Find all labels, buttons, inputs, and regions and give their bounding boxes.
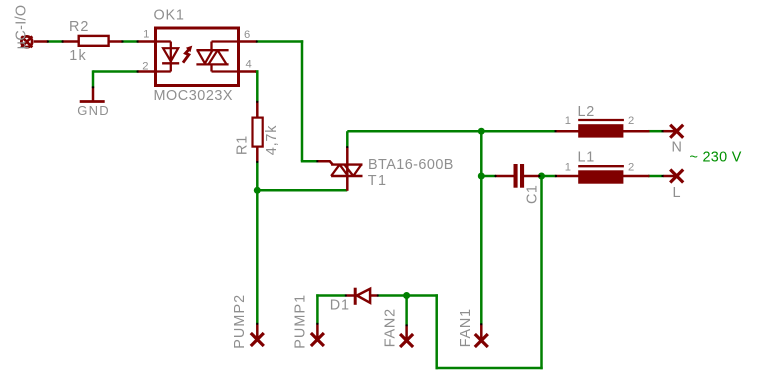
svg-text:2: 2	[628, 161, 634, 173]
OK1 internal triac	[196, 42, 237, 72]
pad uC-I/O	[21, 36, 48, 47]
label L1	[578, 150, 596, 166]
svg-text:6: 6	[244, 29, 250, 41]
svg-text:N: N	[672, 139, 682, 155]
pin number 1 of L2	[565, 115, 571, 127]
label T1	[368, 173, 388, 189]
svg-text:R1: R1	[235, 135, 251, 155]
label R1	[235, 135, 251, 155]
svg-text:MOC3023X: MOC3023X	[154, 88, 234, 104]
label R2	[69, 19, 89, 35]
wire pin6 horizontal	[256, 40, 303, 43]
svg-text:2: 2	[628, 115, 634, 127]
svg-text:FAN2: FAN2	[383, 308, 399, 347]
OK1 pin 2 lead	[137, 70, 157, 73]
wire step vertical	[435, 294, 438, 369]
wire step to FAN2 junction	[407, 294, 438, 297]
svg-text:R2: R2	[69, 19, 89, 35]
label D1	[330, 298, 350, 314]
label BTA16-600B	[368, 157, 454, 173]
terminal N	[664, 125, 684, 138]
wire PUMP1 to D1	[316, 294, 346, 297]
wire bottom horizontal	[436, 367, 543, 370]
triac T1	[317, 147, 363, 191]
svg-text:PUMP2: PUMP2	[232, 294, 248, 349]
label PUMP1	[293, 294, 309, 349]
label uC-I/O	[14, 5, 30, 50]
svg-text:D1: D1	[330, 298, 350, 314]
wire triac MT2 vertical	[346, 131, 349, 148]
pin number 2 of L2	[628, 115, 634, 127]
svg-text:L1: L1	[578, 150, 596, 166]
wire C1 net down	[540, 175, 543, 369]
svg-text:OK1: OK1	[154, 8, 185, 24]
junction node row C	[478, 128, 485, 135]
wire L1 to terminal L	[648, 175, 664, 178]
OK1 internal LED	[157, 42, 179, 72]
inductor L1	[555, 166, 650, 184]
label FAN2	[383, 308, 399, 347]
terminal FAN1	[475, 324, 488, 347]
wire pin2 to GND vertical	[92, 70, 95, 88]
wire row E horizontal R1 to triac	[257, 189, 347, 192]
inductor L2	[555, 120, 650, 138]
terminal PUMP1	[311, 324, 324, 347]
terminal FAN2	[400, 325, 413, 347]
OK1 pin 6 lead	[237, 40, 257, 43]
pin number 2	[142, 60, 148, 72]
label PUMP2	[232, 294, 248, 349]
svg-text:BTA16-600B: BTA16-600B	[368, 157, 454, 173]
svg-text:µC-I/O: µC-I/O	[14, 5, 30, 50]
junction node right of C1	[538, 173, 545, 180]
svg-text:C1: C1	[525, 185, 541, 204]
net label 230V	[690, 149, 742, 165]
svg-text:T1: T1	[368, 173, 388, 189]
label C1	[525, 185, 541, 204]
wire R1 bottom vertical	[256, 162, 259, 192]
svg-text:1: 1	[143, 29, 149, 41]
label OK1	[154, 8, 185, 24]
capacitor C1	[495, 164, 539, 188]
resistor R2	[62, 36, 123, 46]
svg-text:4,7k: 4,7k	[264, 125, 280, 155]
junction dot R1 bottom	[254, 187, 261, 194]
wire L2 to terminal N	[648, 130, 664, 133]
label FAN1	[458, 308, 474, 347]
op-to coupler OK1 box	[156, 28, 239, 86]
wire row D junction to C1	[481, 175, 496, 178]
wire C1 right to junction	[538, 175, 557, 178]
label GND	[77, 103, 110, 118]
svg-text:1: 1	[565, 161, 571, 173]
wire pin2 to GND horizontal	[93, 70, 139, 73]
pin number 1	[143, 29, 149, 41]
wire row C triac to L2	[347, 130, 556, 133]
OK1 pin 1 lead	[137, 40, 157, 43]
wire PUMP2 vertical	[256, 190, 259, 324]
svg-text:PUMP1: PUMP1	[293, 294, 309, 349]
junction node row D left of C1	[478, 173, 485, 180]
terminal L	[664, 170, 684, 183]
label L2	[578, 104, 596, 120]
diode D1	[346, 288, 378, 305]
svg-text:FAN1: FAN1	[458, 308, 474, 347]
svg-text:GND: GND	[77, 103, 110, 118]
svg-text:L: L	[673, 185, 681, 201]
net transition dots	[47, 41, 664, 327]
pin number 6	[244, 29, 250, 41]
junction node FAN2	[403, 292, 410, 299]
value 1k	[69, 48, 87, 64]
wire net uC-IO row A segment 2	[122, 40, 139, 43]
label L	[673, 185, 681, 201]
wire PUMP1 vertical	[316, 294, 319, 324]
OK1 pin 4 lead	[237, 70, 256, 73]
pin number 1 of L1	[565, 161, 571, 173]
value MOC3023X	[154, 88, 234, 104]
wire gate horizontal	[301, 160, 318, 163]
wire pin6 vertical	[301, 40, 304, 161]
OK1 light arrow	[183, 46, 192, 63]
wire FAN1 vertical	[480, 130, 483, 325]
wire FAN2 vertical	[405, 296, 408, 326]
svg-text:1: 1	[565, 115, 571, 127]
label N	[672, 139, 682, 155]
pin number 4	[246, 59, 252, 71]
svg-text:~ 230 V: ~ 230 V	[690, 149, 742, 165]
ground GND	[80, 87, 105, 102]
svg-text:4: 4	[246, 59, 252, 71]
value 4,7k	[264, 125, 280, 155]
terminal PUMP2	[251, 324, 264, 347]
svg-text:1k: 1k	[69, 48, 87, 64]
wire D1 right to FAN2 junction	[378, 294, 407, 297]
svg-text:2: 2	[142, 60, 148, 72]
pin number 2 of L1	[628, 161, 634, 173]
svg-text:L2: L2	[578, 104, 596, 120]
resistor R1	[253, 101, 263, 162]
wire net uC-IO row A segment 1	[47, 40, 64, 43]
wire pin4 horizontal	[255, 70, 259, 73]
wire pin4 vertical to R1	[256, 70, 259, 102]
